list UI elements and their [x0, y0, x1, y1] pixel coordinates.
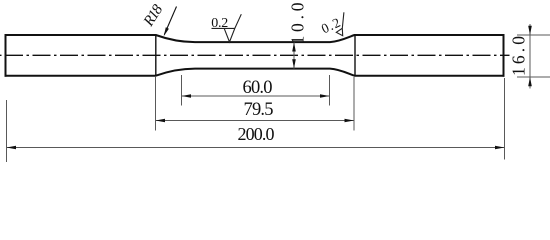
svg-text:79.5: 79.5	[244, 100, 274, 120]
svg-text:10.0: 10.0	[288, 2, 308, 44]
svg-text:16.0: 16.0	[509, 36, 529, 76]
svg-text:60.0: 60.0	[243, 78, 273, 98]
svg-text:200.0: 200.0	[238, 124, 275, 144]
svg-text:0.2: 0.2	[211, 16, 228, 31]
